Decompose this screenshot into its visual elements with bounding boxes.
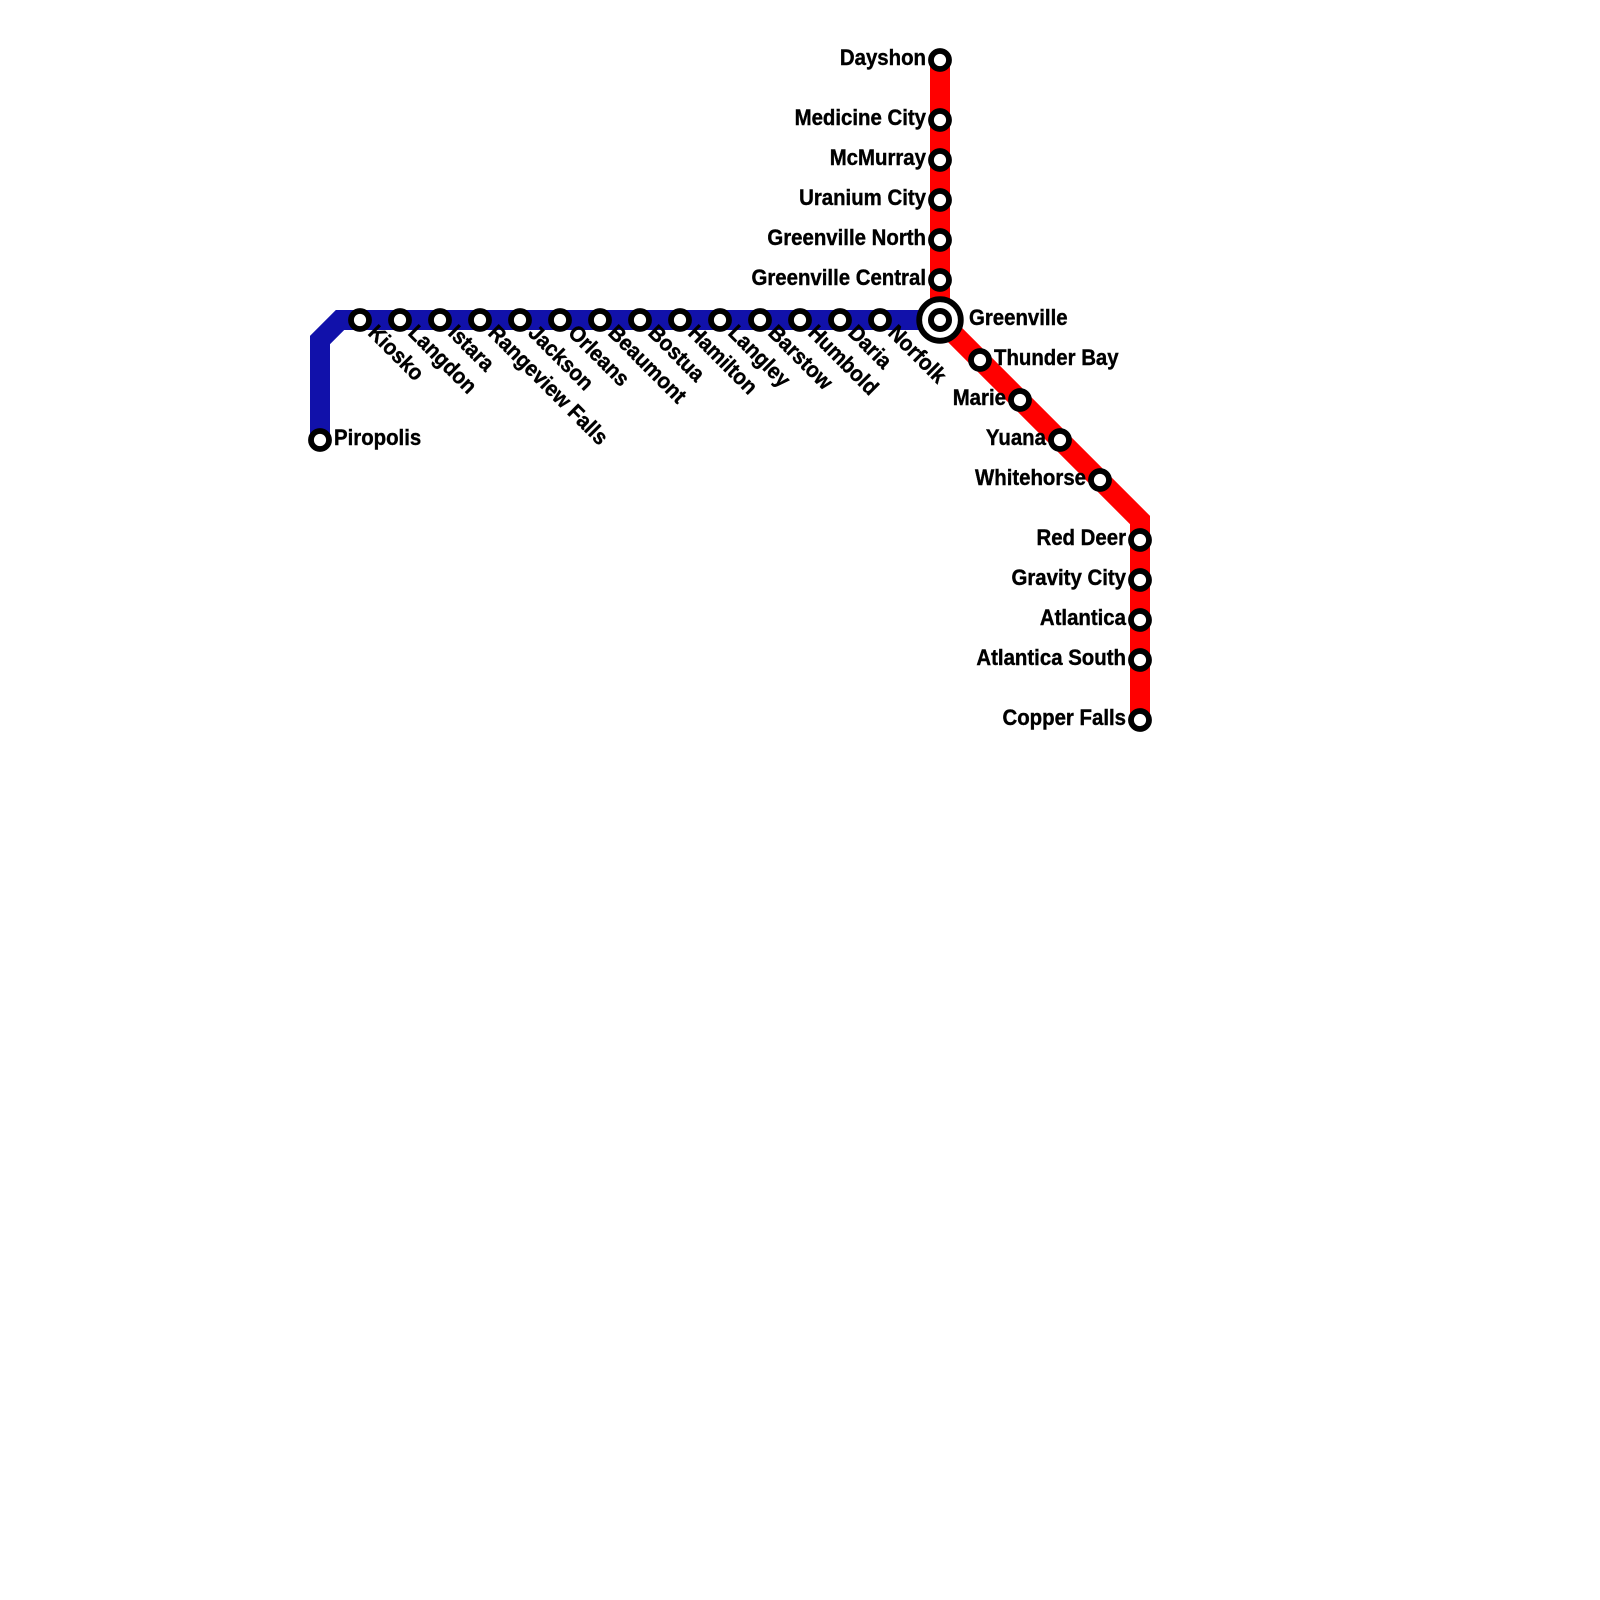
station Medicine City (931, 111, 949, 129)
station Gravity City (1131, 571, 1149, 589)
station McMurray (931, 151, 949, 169)
svg-text:Atlantica: Atlantica (1040, 605, 1127, 630)
station Atlantica (1131, 611, 1149, 629)
red line (Dayshon - Copper Falls) (940, 60, 1140, 720)
station Bostua (631, 311, 649, 329)
svg-text:Greenville North: Greenville North (767, 225, 926, 250)
station Beaumont (591, 311, 609, 329)
station Istara (431, 311, 449, 329)
station Jackson (511, 311, 529, 329)
station Hamilton (671, 311, 689, 329)
svg-text:Uranium City: Uranium City (799, 185, 927, 210)
station Langley (711, 311, 729, 329)
station Thunder Bay (971, 351, 989, 369)
svg-text:Thunder Bay: Thunder Bay (994, 345, 1119, 370)
station Piropolis (311, 431, 329, 449)
svg-text:Dayshon: Dayshon (840, 45, 926, 70)
svg-text:Greenville: Greenville (969, 305, 1068, 330)
svg-text:McMurray: McMurray (830, 145, 927, 170)
svg-text:Atlantica South: Atlantica South (976, 645, 1126, 670)
station Greenville North (931, 231, 949, 249)
station Humbold (791, 311, 809, 329)
station Dayshon (931, 51, 949, 69)
blue line (Piropolis - Greenville) (320, 320, 940, 440)
station Rangeview Falls (471, 311, 489, 329)
station Daria (831, 311, 849, 329)
station Greenville (interchange) (919, 299, 961, 341)
station Norfolk (871, 311, 889, 329)
svg-text:Red Deer: Red Deer (1037, 525, 1127, 550)
station Red Deer (1131, 531, 1149, 549)
svg-text:Greenville Central: Greenville Central (752, 265, 927, 290)
svg-text:Yuana: Yuana (986, 425, 1047, 450)
svg-text:Whitehorse: Whitehorse (975, 465, 1086, 490)
station Copper Falls (1131, 711, 1149, 729)
svg-text:Marie: Marie (953, 385, 1006, 410)
station Barstow (751, 311, 769, 329)
station Yuana (1051, 431, 1069, 449)
station Kiosko (351, 311, 369, 329)
svg-text:Piropolis: Piropolis (334, 425, 421, 450)
station Orleans (551, 311, 569, 329)
station Greenville Central (931, 271, 949, 289)
svg-text:Medicine City: Medicine City (795, 105, 927, 130)
station Whitehorse (1091, 471, 1109, 489)
station Uranium City (931, 191, 949, 209)
station Langdon (391, 311, 409, 329)
svg-text:Gravity City: Gravity City (1012, 565, 1127, 590)
station Atlantica South (1131, 651, 1149, 669)
station Marie (1011, 391, 1029, 409)
svg-text:Copper Falls: Copper Falls (1003, 705, 1127, 730)
